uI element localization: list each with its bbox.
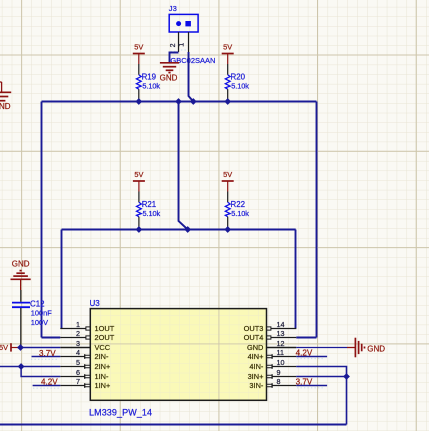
svg-text:13: 13: [277, 329, 285, 338]
svg-text:1OUT: 1OUT: [95, 324, 115, 333]
wire from left edge to pin 5: [0, 366, 60, 368]
J3 pin 2 line: [178, 32, 180, 52]
svg-text:11: 11: [277, 348, 284, 357]
svg-text:2IN+: 2IN+: [95, 362, 111, 371]
svg-text:2: 2: [76, 329, 80, 338]
svg-text:1IN+: 1IN+: [95, 381, 111, 390]
svg-text:5: 5: [76, 358, 80, 367]
svg-text:4: 4: [76, 348, 80, 357]
svg-text:VCC: VCC: [95, 343, 111, 352]
svg-text:1: 1: [176, 43, 185, 47]
power ground under J3: [160, 62, 179, 64]
junction R22 net2: [224, 226, 231, 233]
wire link net1 to net2: [179, 102, 188, 230]
wire stub to pin 7: [33, 385, 61, 387]
svg-text:1: 1: [76, 320, 80, 329]
wire net1 left vertical: [41, 102, 43, 338]
wire J3 pin2 to ground: [170, 53, 179, 63]
junction 5V C12 VCC: [17, 344, 24, 351]
comparator U3 LM339_PW_14 body: [90, 309, 266, 401]
wire J3 pin1 down diagonal: [189, 52, 194, 102]
power ground right: [347, 347, 355, 349]
resistor R22 5.10k: [227, 192, 229, 203]
svg-text:3IN+: 3IN+: [248, 372, 264, 381]
junction pin5 pin6 branch: [18, 363, 25, 370]
svg-text:J3: J3: [169, 4, 177, 13]
svg-text:5V: 5V: [134, 170, 143, 179]
wire net1 horizontal: [42, 101, 317, 103]
svg-text:R19: R19: [142, 73, 157, 82]
junction R21 net2: [136, 226, 143, 233]
compile mark under pin 1: [181, 49, 187, 51]
resistor R19 5.10k: [138, 64, 140, 75]
svg-text:5.10k: 5.10k: [142, 82, 160, 91]
junction R20 net1: [224, 98, 231, 105]
svg-text:5V: 5V: [223, 170, 232, 179]
compile mark under pin 2: [171, 51, 177, 53]
major grid lines: [21, 0, 23, 431]
svg-text:2OUT: 2OUT: [95, 333, 115, 342]
svg-text:9: 9: [277, 368, 281, 377]
svg-text:14: 14: [277, 320, 285, 329]
svg-text:4.2V: 4.2V: [296, 348, 313, 357]
svg-text:2IN-: 2IN-: [95, 352, 110, 361]
compile mark under 4.2V left: [33, 387, 60, 389]
resistor R21 5.10k: [138, 192, 140, 203]
svg-text:3.7V: 3.7V: [296, 378, 313, 387]
svg-text:3: 3: [76, 339, 80, 348]
junction link net1: [175, 98, 182, 105]
svg-text:OUT4: OUT4: [244, 333, 264, 342]
svg-text:7: 7: [76, 377, 80, 386]
svg-text:1IN-: 1IN-: [95, 372, 110, 381]
J3 pin 1 line: [188, 32, 190, 52]
wire branch to pin 6: [21, 367, 60, 377]
wire stub to pin 8: [296, 385, 327, 387]
svg-text:GND: GND: [367, 344, 385, 353]
wire net2 horizontal: [62, 229, 296, 231]
svg-text:GND: GND: [0, 102, 11, 111]
wire pin 9 to vertical: [296, 376, 346, 378]
svg-text:5.10k: 5.10k: [143, 209, 161, 218]
compile mark under 3.7V left: [31, 358, 58, 360]
svg-text:R22: R22: [231, 200, 245, 209]
svg-text:8: 8: [277, 377, 281, 386]
svg-text:R21: R21: [142, 200, 156, 209]
compile mark under 3.7V right: [297, 387, 324, 389]
svg-text:4IN+: 4IN+: [248, 352, 264, 361]
wire GND pin12 to ground: [296, 347, 347, 349]
wire stub to pin 11: [296, 356, 327, 358]
svg-text:5V: 5V: [223, 43, 232, 52]
svg-text:4IN-: 4IN-: [249, 362, 264, 371]
wire net2 left vertical: [61, 230, 63, 329]
svg-text:OUT3: OUT3: [244, 324, 264, 333]
wire net1 to pin OUT4: [296, 337, 316, 339]
svg-text:5V: 5V: [134, 43, 143, 52]
wire net2 right vertical: [295, 230, 297, 329]
compile mark under 4.2V right: [297, 358, 324, 360]
svg-text:6: 6: [76, 368, 80, 377]
junction link net2: [184, 226, 191, 233]
svg-text:LM339_PW_14: LM339_PW_14: [89, 407, 152, 417]
svg-text:R20: R20: [231, 73, 246, 82]
wire 5V to VCC pin 3: [18, 347, 61, 349]
svg-text:5.10k: 5.10k: [231, 82, 249, 91]
svg-text:4.2V: 4.2V: [41, 378, 58, 387]
svg-text:100nF: 100nF: [31, 309, 52, 318]
J3 pin 1 contact square: [185, 21, 191, 26]
svg-text:5.10k: 5.10k: [231, 209, 249, 218]
svg-text:GND: GND: [160, 74, 178, 83]
svg-text:10: 10: [277, 358, 285, 367]
svg-text:3.7V: 3.7V: [39, 349, 56, 358]
svg-text:C12: C12: [30, 299, 44, 308]
J3 pin 2 contact circle: [176, 21, 181, 26]
wire net1 to pin 2OUT: [42, 337, 61, 339]
svg-text:U3: U3: [90, 299, 101, 308]
wire bottom horizontal: [0, 424, 347, 426]
svg-text:5V: 5V: [0, 343, 8, 352]
svg-text:3IN-: 3IN-: [249, 381, 264, 390]
wire pin10 down right: [296, 367, 346, 425]
resistor R20 5.10k: [227, 64, 229, 75]
svg-text:GND: GND: [247, 343, 263, 352]
junction J3.1 net1: [190, 98, 197, 105]
junction R19 net1: [135, 98, 142, 105]
capacitor C12 100nF 100V: [20, 290, 22, 302]
partial ground symbol at left edge: [1, 82, 3, 92]
svg-text:12: 12: [277, 339, 285, 348]
junction pin9 vertical: [343, 373, 350, 380]
wire stub to pin 4: [32, 356, 61, 358]
wire net1 right vertical: [316, 102, 318, 338]
svg-text:100V: 100V: [31, 318, 48, 327]
svg-text:GND: GND: [12, 260, 30, 269]
